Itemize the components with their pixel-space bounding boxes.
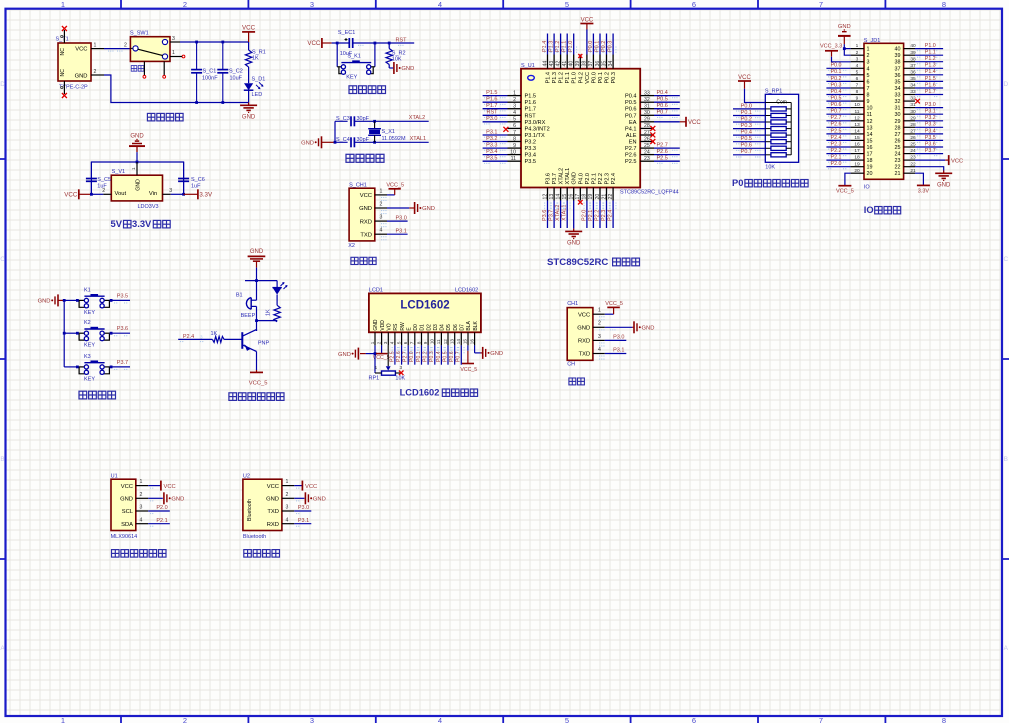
- svg-text:P0.7: P0.7: [741, 149, 752, 155]
- svg-text:38: 38: [895, 60, 901, 66]
- svg-text:P1.7: P1.7: [486, 103, 497, 109]
- svg-text:P3.0: P3.0: [925, 102, 936, 108]
- net label P3.2 wire (U1 pin 8): [483, 136, 508, 144]
- svg-text:GND: GND: [567, 240, 581, 246]
- svg-text:1: 1: [131, 167, 136, 170]
- svg-text:P0.7: P0.7: [831, 109, 842, 115]
- net label P1.3 wire (JD1 pin 37): [915, 63, 943, 71]
- svg-text:1: 1: [61, 716, 65, 723]
- svg-text:CH: CH: [567, 361, 575, 367]
- net label P0.7 wire (RP1): [733, 149, 765, 157]
- svg-text:A: A: [1004, 645, 1009, 652]
- svg-text:KEY: KEY: [84, 310, 95, 316]
- svg-text:P0.4: P0.4: [657, 90, 668, 96]
- svg-text:P4.3/INT2: P4.3/INT2: [525, 126, 550, 132]
- svg-text:P2.0: P2.0: [585, 173, 591, 185]
- svg-text:GND: GND: [577, 326, 590, 332]
- svg-text:P3.2: P3.2: [486, 136, 497, 142]
- svg-text:P3.7: P3.7: [548, 210, 554, 221]
- svg-text:S_K1: S_K1: [347, 53, 360, 59]
- net label P0.1 wire (LCD pin 8): [416, 345, 425, 364]
- svg-text:7: 7: [867, 86, 870, 92]
- svg-text:10K: 10K: [395, 375, 405, 381]
- svg-text:32: 32: [644, 97, 650, 103]
- svg-text:GND: GND: [250, 249, 264, 255]
- svg-text:P2.4: P2.4: [608, 210, 614, 221]
- svg-text:P3.4: P3.4: [525, 153, 537, 159]
- svg-text:2: 2: [183, 0, 187, 9]
- svg-text:11: 11: [855, 109, 860, 115]
- svg-text:P3.6: P3.6: [117, 326, 128, 332]
- net label P3.1 wire (JD1 pin 30): [915, 109, 943, 117]
- svg-text:NC: NC: [60, 48, 66, 56]
- net label P2.7 wire (LCD pin 6): [403, 345, 412, 364]
- net label P1.6 wire (JD1 pin 34): [915, 82, 943, 90]
- svg-text:KEY: KEY: [84, 343, 95, 349]
- net label P3.1 wire (U1 pin 7): [483, 129, 508, 137]
- svg-text:P3.1: P3.1: [298, 518, 309, 524]
- svg-text:D7: D7: [460, 324, 466, 331]
- svg-text:3: 3: [867, 60, 870, 66]
- net label P2.2 wire (U1 pin 20): [594, 201, 603, 229]
- svg-text:38: 38: [582, 61, 588, 67]
- svg-text:P4.0: P4.0: [578, 173, 584, 185]
- net label P0.2 wire (U1 pin 35): [601, 34, 610, 55]
- svg-text:P0.5: P0.5: [741, 136, 752, 142]
- svg-text:1: 1: [598, 308, 601, 314]
- svg-text:11: 11: [436, 339, 441, 344]
- connector CH1 serial port body: [567, 301, 605, 368]
- svg-text:P0.5: P0.5: [625, 100, 637, 106]
- svg-text:3: 3: [172, 36, 175, 42]
- svg-text:1: 1: [139, 479, 142, 485]
- svg-text:P0.6: P0.6: [741, 143, 752, 149]
- net label P3.4 wire (U1 pin 10): [483, 149, 508, 157]
- svg-text:100nF: 100nF: [202, 76, 218, 82]
- svg-text:C: C: [1003, 256, 1008, 263]
- svg-text:Vout: Vout: [115, 191, 127, 197]
- svg-text:3: 3: [200, 335, 203, 340]
- svg-text:16: 16: [469, 339, 474, 345]
- net label P0.5 wire (LCD pin 12): [442, 345, 451, 364]
- net label P1.6 wire (U1 pin 2): [483, 97, 508, 105]
- connector CH1 download port body: [348, 182, 387, 249]
- resistor R1 1K: [245, 42, 265, 67]
- svg-text:4: 4: [286, 517, 289, 523]
- net label P0.1 wire (RP1): [733, 110, 765, 118]
- potentiometer RP1 10K: [369, 345, 406, 381]
- svg-text:18: 18: [582, 194, 588, 200]
- svg-text:2: 2: [124, 43, 127, 49]
- ground GND at CH1 pin 2: [381, 202, 435, 214]
- net label P0.5 wire (RP1): [733, 136, 765, 144]
- svg-text:VCC: VCC: [267, 484, 279, 490]
- svg-text:14: 14: [555, 194, 561, 200]
- capacitor C6 1uF: [178, 162, 205, 194]
- title P0 pull-up resistor circuit: [732, 178, 808, 188]
- ground GND top of JD1: [838, 24, 851, 44]
- svg-text:1: 1: [856, 43, 859, 49]
- svg-text:P2.1: P2.1: [831, 155, 842, 161]
- svg-text:P0.2: P0.2: [601, 41, 607, 52]
- svg-text:37: 37: [588, 61, 594, 67]
- svg-text:P0.2: P0.2: [605, 72, 611, 84]
- svg-text:1: 1: [513, 90, 516, 96]
- capacitor C3 30pF: [335, 116, 375, 126]
- svg-text:K1: K1: [84, 287, 91, 293]
- net label P3.1 wire (CH1 pin 4): [381, 228, 408, 240]
- title crystal circuit: [346, 154, 384, 162]
- svg-text:P1.6: P1.6: [486, 97, 497, 103]
- svg-text:8: 8: [867, 93, 870, 99]
- svg-text:P1.5: P1.5: [525, 94, 537, 100]
- net label P2.0 wire (U1 pin 18): [581, 201, 590, 229]
- net label P0.7 wire (JD1 pin 11): [826, 109, 850, 117]
- net label P3.3 wire (U1 pin 9): [483, 143, 508, 151]
- svg-text:26: 26: [644, 136, 650, 142]
- IC U1 right pins: [625, 90, 654, 165]
- svg-text:GND: GND: [130, 134, 144, 140]
- svg-text:14: 14: [456, 339, 461, 345]
- net label P3.0 wire (JD1 pin 31): [915, 102, 943, 110]
- svg-text:P1.7: P1.7: [525, 107, 537, 113]
- svg-text:VCC: VCC: [242, 25, 256, 32]
- svg-text:32: 32: [895, 99, 901, 105]
- pin 2 GND wire from T1 to bottom rail: [91, 69, 197, 103]
- svg-text:P3.0: P3.0: [486, 116, 497, 122]
- svg-text:1K: 1K: [211, 331, 218, 337]
- svg-text:5: 5: [867, 73, 870, 79]
- svg-text:P0.3: P0.3: [831, 82, 842, 88]
- svg-text:13: 13: [449, 339, 454, 345]
- svg-text:S_U1: S_U1: [521, 63, 535, 69]
- svg-text:22: 22: [608, 194, 614, 200]
- net label P2.3 wire (JD1 pin 16): [826, 141, 850, 149]
- svg-text:P1.4: P1.4: [925, 69, 936, 75]
- svg-text:P1.4: P1.4: [546, 72, 552, 84]
- svg-text:12: 12: [542, 194, 548, 200]
- net label P3.3 wire (JD1 pin 28): [915, 122, 943, 130]
- svg-text:17: 17: [575, 194, 581, 200]
- svg-text:GND: GND: [401, 66, 414, 72]
- svg-text:P3.3: P3.3: [486, 143, 497, 149]
- svg-text:P0.1: P0.1: [831, 69, 842, 75]
- svg-text:P3.1: P3.1: [925, 109, 936, 115]
- svg-text:8: 8: [942, 0, 946, 9]
- svg-text:GND: GND: [490, 351, 503, 357]
- svg-text:S_C5: S_C5: [97, 177, 111, 183]
- net label P0.3 wire (U1 pin 34): [608, 34, 617, 55]
- title STC89C52RC main chip: [547, 257, 640, 268]
- svg-text:16: 16: [569, 194, 575, 200]
- svg-text:LED: LED: [252, 92, 263, 98]
- switch SW1: [130, 31, 170, 76]
- svg-text:3: 3: [856, 56, 859, 62]
- svg-text:3: 3: [286, 505, 289, 511]
- svg-text:16: 16: [867, 145, 873, 151]
- svg-text:40: 40: [895, 47, 901, 53]
- svg-text:P3.5: P3.5: [486, 156, 497, 162]
- svg-text:P1.7: P1.7: [925, 89, 936, 95]
- svg-text:P1.6: P1.6: [925, 82, 936, 88]
- svg-text:6: 6: [856, 76, 859, 82]
- svg-text:P3.5: P3.5: [117, 293, 128, 299]
- svg-text:11: 11: [867, 112, 873, 118]
- svg-text:GND: GND: [171, 497, 184, 503]
- svg-text:VCC: VCC: [307, 40, 321, 47]
- svg-text:PNP: PNP: [258, 340, 270, 346]
- power VCC at JD1 pin 23: [915, 155, 963, 165]
- svg-text:P3.0/RX: P3.0/RX: [525, 120, 546, 126]
- svg-text:VCC_3.3: VCC_3.3: [820, 43, 842, 49]
- net label P2.6 wire (U1 pin 24): [654, 149, 680, 157]
- title reset circuit: [349, 86, 386, 94]
- svg-text:P2.0: P2.0: [581, 210, 587, 221]
- svg-text:GND: GND: [642, 326, 655, 332]
- svg-text:VCC_5: VCC_5: [386, 183, 404, 189]
- net label P3.0 wire (U1 pin 5): [483, 116, 508, 124]
- net label P3.5 wire (JD1 pin 26): [915, 135, 943, 143]
- svg-text:11.0592M: 11.0592M: [382, 136, 406, 142]
- svg-text:P1.5: P1.5: [925, 76, 936, 82]
- svg-text:RS: RS: [393, 323, 399, 331]
- svg-text:GND: GND: [75, 74, 88, 80]
- svg-text:1K: 1K: [252, 56, 259, 62]
- svg-text:XTAL2: XTAL2: [409, 115, 425, 121]
- net label P2.1 wire (JD1 pin 18): [826, 155, 850, 163]
- net label P0.2 wire (RP1): [733, 116, 765, 124]
- power VCC_5 at serial pin 1: [599, 301, 623, 321]
- svg-text:P3.3: P3.3: [925, 122, 936, 128]
- svg-text:P3.1/TX: P3.1/TX: [525, 133, 545, 139]
- svg-text:GND: GND: [313, 497, 326, 503]
- no-connect X on T1 pin 3: [62, 26, 67, 31]
- svg-text:27: 27: [895, 132, 901, 138]
- wire GND to JD1 pins 1-2: [843, 44, 851, 55]
- connector JD1 IO expansion body: [851, 38, 916, 191]
- svg-text:21: 21: [601, 194, 607, 200]
- svg-text:VCC_5: VCC_5: [460, 367, 477, 373]
- net label P0.1 wire (U1 pin 36): [594, 34, 603, 55]
- svg-text:P0.1: P0.1: [594, 41, 600, 52]
- net label P1.3 wire (U1 pin 43): [548, 34, 557, 55]
- resistor 1K alarm: [266, 305, 281, 322]
- ground GND power circuit: [240, 103, 257, 121]
- svg-text:10K: 10K: [392, 57, 402, 63]
- svg-text:4: 4: [856, 63, 859, 69]
- net label P3.1 wire (serial pin 4): [599, 348, 626, 360]
- ground GND at LCD pin 16: [475, 345, 503, 359]
- svg-text:P1.3: P1.3: [925, 63, 936, 69]
- svg-text:ALE: ALE: [626, 133, 637, 139]
- net label P3.5 wire (U1 pin 11): [483, 156, 508, 164]
- no-connect X on JD1 pin 32: [915, 99, 920, 104]
- svg-text:D: D: [0, 81, 5, 88]
- svg-text:GND: GND: [359, 206, 372, 212]
- svg-text:10: 10: [430, 339, 435, 345]
- power 3.3V output: [171, 189, 213, 199]
- svg-text:P2.1: P2.1: [591, 173, 597, 185]
- IR temperature module U1 MLX90614: [111, 474, 149, 541]
- title serial port: [569, 378, 585, 385]
- svg-text:20: 20: [595, 194, 601, 200]
- svg-text:GND: GND: [38, 299, 51, 305]
- net label XTAL1 wire (U1 pin 15): [562, 201, 571, 229]
- net label P0.4 wire (JD1 pin 8): [826, 89, 850, 97]
- svg-text:RST: RST: [525, 113, 537, 119]
- svg-text:36: 36: [895, 73, 901, 79]
- svg-text:34: 34: [608, 61, 614, 67]
- title IR temperature module: [112, 550, 167, 558]
- net label P2.1 wire (U1 pin 4): [148, 518, 170, 527]
- svg-text:P4.2: P4.2: [578, 72, 584, 84]
- net label P0.0 wire (U1 pin 37): [588, 34, 597, 55]
- ground GND alarm circuit: [248, 249, 266, 268]
- svg-text:B: B: [0, 456, 4, 463]
- svg-text:14: 14: [854, 129, 860, 135]
- svg-text:P0.1: P0.1: [598, 72, 604, 84]
- svg-text:6: 6: [403, 341, 408, 344]
- svg-text:GND: GND: [338, 352, 351, 358]
- key K2: [64, 320, 112, 349]
- svg-text:23: 23: [644, 156, 650, 162]
- svg-text:LCD1602: LCD1602: [455, 288, 478, 294]
- svg-text:8: 8: [942, 716, 946, 723]
- net label P3.0 wire (serial pin 3): [599, 335, 626, 347]
- net label P1.0 wire (JD1 pin 40): [915, 43, 943, 51]
- capacitor EC1 10uF polarized: [338, 30, 355, 57]
- svg-text:15: 15: [854, 135, 860, 141]
- svg-text:Bluetooth: Bluetooth: [243, 534, 266, 540]
- svg-text:P3.0: P3.0: [613, 335, 624, 341]
- svg-text:4: 4: [438, 716, 442, 723]
- svg-text:7: 7: [819, 716, 823, 723]
- resistor 1K base: [178, 331, 242, 342]
- svg-text:XTAL2: XTAL2: [555, 205, 561, 221]
- net label P0.4 wire (RP1): [733, 130, 765, 138]
- svg-text:X2: X2: [348, 243, 355, 249]
- svg-text:1: 1: [380, 188, 383, 194]
- svg-text:EN: EN: [629, 140, 637, 146]
- svg-text:3: 3: [139, 505, 142, 511]
- title 5V to 3.3V circuit: [111, 218, 171, 229]
- svg-text:43: 43: [549, 61, 555, 67]
- svg-text:4: 4: [867, 66, 870, 72]
- ground GND at serial pin 2: [599, 321, 654, 333]
- svg-text:VO: VO: [386, 323, 392, 330]
- svg-text:D1: D1: [420, 324, 426, 331]
- net label P0.7 wire (LCD pin 14): [456, 345, 465, 364]
- svg-text:GND: GND: [373, 319, 379, 331]
- svg-text:S_SW1: S_SW1: [130, 31, 149, 37]
- svg-text:C: C: [0, 256, 5, 263]
- no-connect marker on U1 pin 39: [578, 54, 582, 58]
- svg-text:3: 3: [169, 188, 172, 194]
- regulator V1 LDO3V3: [102, 162, 172, 210]
- svg-text:VCC_5: VCC_5: [249, 381, 268, 387]
- svg-text:XTAL1: XTAL1: [565, 168, 571, 185]
- svg-text:P3.1: P3.1: [396, 228, 407, 234]
- net label P3.7 wire (JD1 pin 24): [915, 148, 943, 156]
- svg-text:P2.1: P2.1: [588, 210, 594, 221]
- net label P2.1 wire (U1 pin 19): [588, 201, 597, 229]
- wire key common trunk: [63, 299, 66, 367]
- net label RST wire (U1 pin 4): [483, 110, 508, 118]
- svg-text:P1.0: P1.0: [925, 43, 936, 49]
- net label P3.0 wire (CH1 pin 3): [381, 215, 408, 227]
- wire GND pin of U1: [573, 201, 575, 229]
- wire XTAL1: [373, 141, 429, 144]
- power VCC_5 at JD1 pin 20: [836, 173, 854, 195]
- svg-text:5: 5: [565, 716, 569, 723]
- svg-text:41: 41: [562, 61, 568, 67]
- svg-text:P3.0: P3.0: [298, 505, 309, 511]
- svg-text:K3: K3: [84, 354, 91, 360]
- svg-text:RST: RST: [487, 110, 499, 116]
- wire regulator top rail: [91, 161, 183, 195]
- svg-text:3: 3: [513, 104, 516, 110]
- svg-text:13: 13: [854, 122, 860, 128]
- power VCC top of power circuit: [242, 25, 256, 42]
- capacitor C4 30pF: [335, 137, 375, 147]
- svg-text:7: 7: [410, 341, 415, 344]
- net label P3.4 wire (JD1 pin 27): [915, 128, 943, 136]
- svg-text:RXD: RXD: [360, 219, 372, 225]
- svg-text:18: 18: [854, 155, 860, 161]
- svg-text:33: 33: [895, 93, 901, 99]
- svg-text:P1.3: P1.3: [548, 41, 554, 52]
- svg-text:30: 30: [644, 110, 650, 116]
- power VCC for RP1: [738, 75, 751, 89]
- svg-text:VCC: VCC: [121, 484, 133, 490]
- net label XTAL2 wire (U1 pin 14): [555, 201, 564, 229]
- power VCC at U1 pin 1: [148, 481, 176, 491]
- svg-text:VCC: VCC: [75, 47, 87, 53]
- svg-text:3: 3: [380, 215, 383, 221]
- svg-text:S_C3: S_C3: [336, 116, 350, 122]
- svg-text:39: 39: [895, 53, 901, 59]
- net label P2.4 wire: [180, 334, 203, 342]
- svg-text:P1.2: P1.2: [555, 41, 561, 52]
- svg-text:10: 10: [867, 106, 873, 112]
- svg-text:P2.5: P2.5: [625, 159, 637, 165]
- LED D2 alarm: [272, 281, 287, 306]
- svg-text:30pF: 30pF: [357, 137, 370, 143]
- title alarm circuit: [229, 393, 284, 401]
- net label P0.5 wire (JD1 pin 9): [826, 96, 850, 104]
- wire VCC to RST net: [332, 42, 415, 45]
- svg-text:12: 12: [854, 115, 860, 121]
- svg-text:P2.1: P2.1: [156, 518, 167, 524]
- svg-text:B: B: [1004, 456, 1008, 463]
- svg-text:GND: GND: [120, 497, 133, 503]
- svg-text:P2.7: P2.7: [831, 115, 842, 121]
- svg-text:5: 5: [513, 117, 516, 123]
- IC U1 top pins: [542, 55, 617, 84]
- svg-text:33: 33: [644, 90, 650, 96]
- svg-text:17: 17: [867, 152, 873, 158]
- svg-text:31: 31: [895, 106, 901, 112]
- Bluetooth module U2: [243, 474, 294, 541]
- ground GND regulator: [129, 134, 145, 162]
- svg-text:P4.1: P4.1: [625, 126, 637, 132]
- net label P1.4 wire (U1 pin 44): [542, 34, 551, 55]
- svg-text:5V: 5V: [111, 218, 123, 229]
- net label P2.5 wire (JD1 pin 14): [826, 128, 850, 136]
- svg-text:3: 3: [400, 365, 403, 370]
- key S_K1 reset button: [337, 43, 375, 81]
- svg-text:2: 2: [513, 97, 516, 103]
